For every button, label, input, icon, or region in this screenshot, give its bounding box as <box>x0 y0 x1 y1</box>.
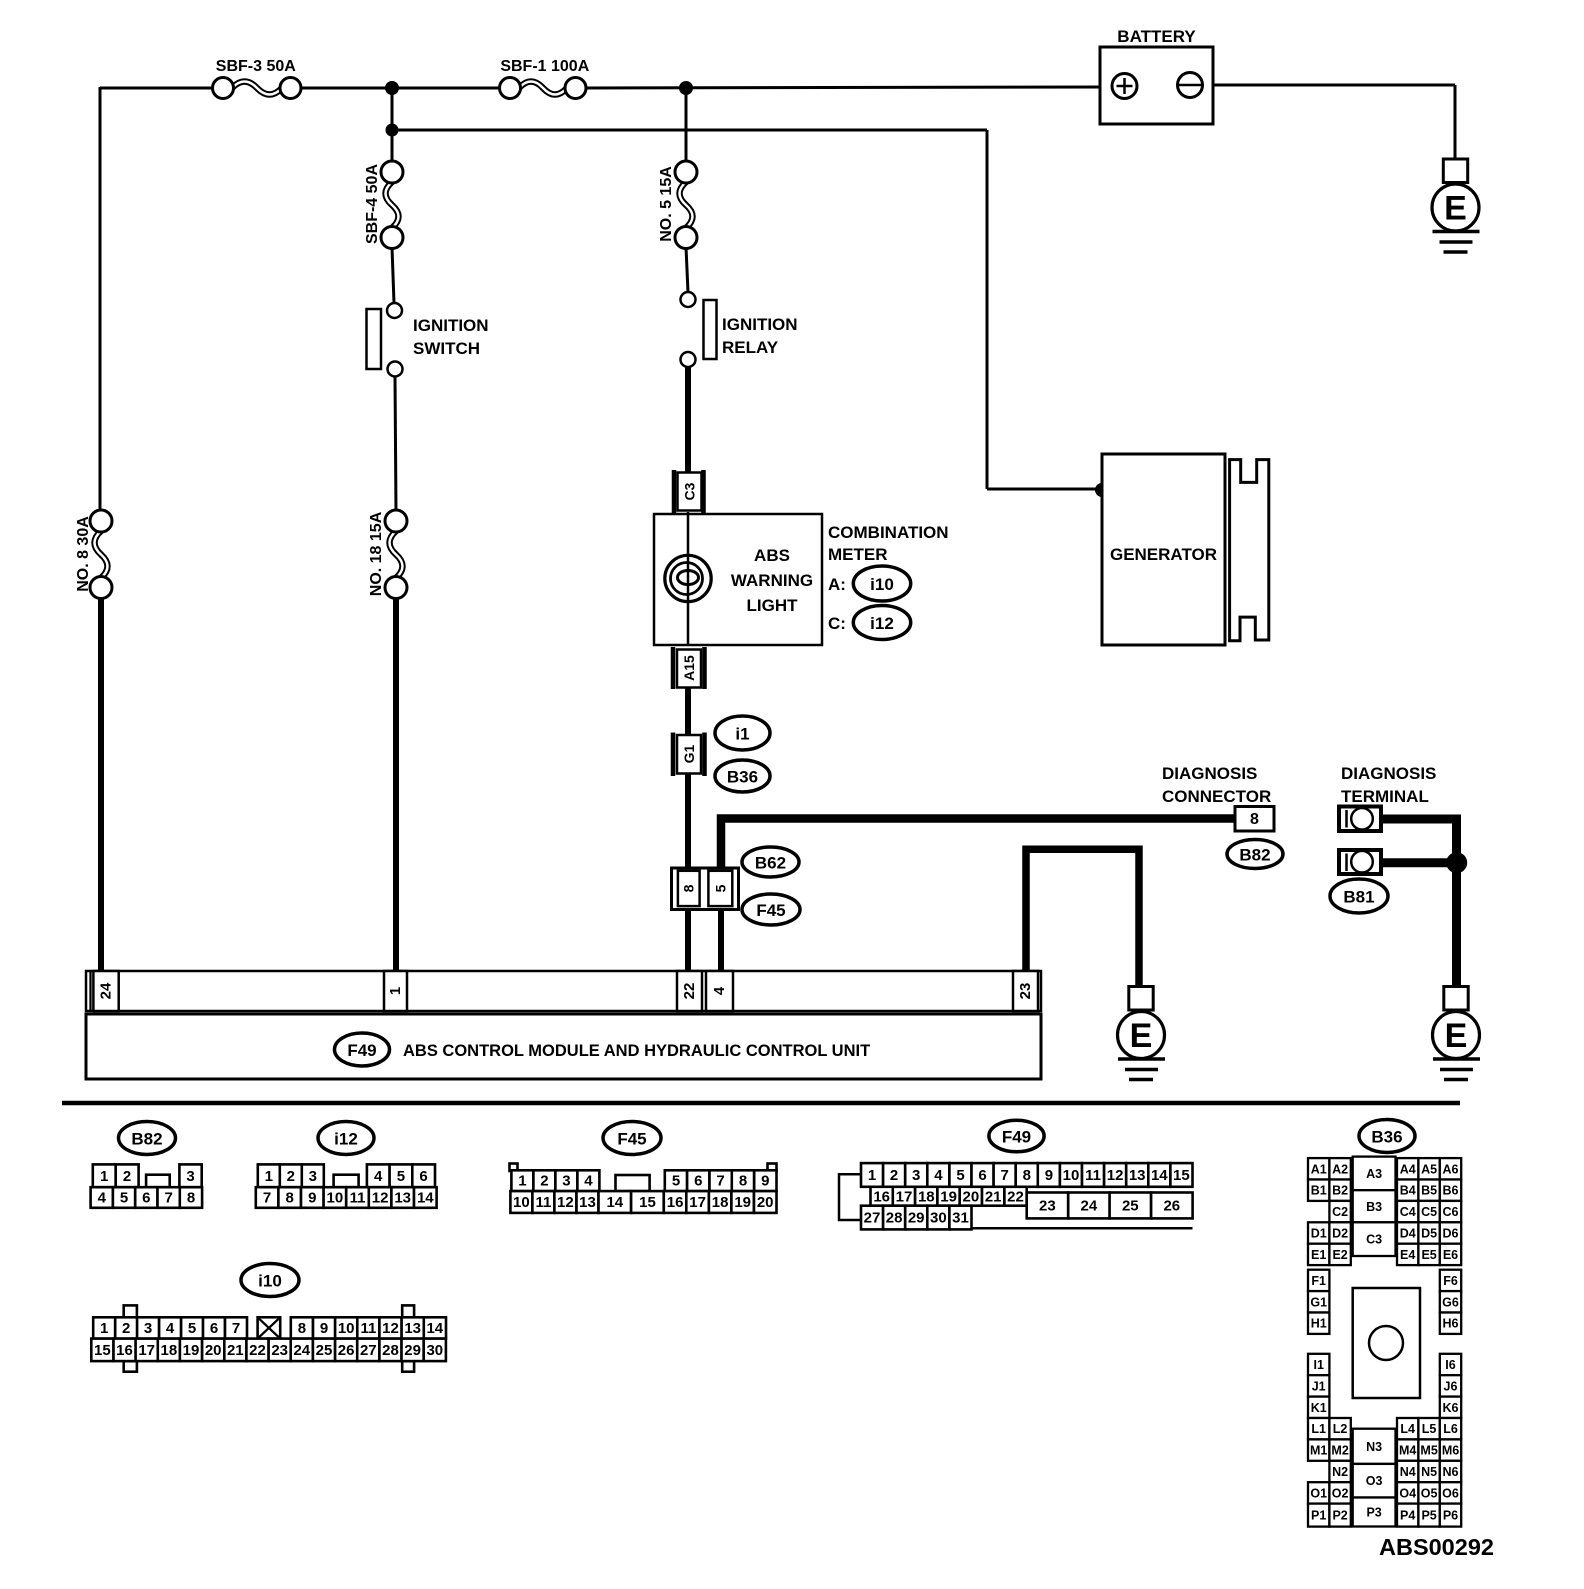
pin 23 <box>1013 971 1038 1011</box>
svg-text:26: 26 <box>1163 1198 1180 1215</box>
svg-text:LIGHT: LIGHT <box>747 596 799 615</box>
svg-text:12: 12 <box>1107 1167 1124 1184</box>
svg-text:1: 1 <box>100 1320 108 1337</box>
svg-text:22: 22 <box>1007 1188 1024 1205</box>
lamp ABS warning light <box>665 555 711 601</box>
connector detail B82 label <box>119 1122 176 1155</box>
svg-text:4: 4 <box>934 1167 943 1184</box>
svg-text:10: 10 <box>338 1320 355 1337</box>
svg-text:4: 4 <box>584 1173 593 1190</box>
svg-text:6: 6 <box>978 1167 986 1184</box>
wire ignition switch column <box>392 88 396 973</box>
connector detail F49 label <box>989 1120 1044 1152</box>
svg-text:ABS: ABS <box>754 546 790 565</box>
pin 1 <box>384 971 407 1011</box>
svg-text:8: 8 <box>1023 1167 1031 1184</box>
node junction SBF-4 top <box>385 81 399 95</box>
svg-text:METER: METER <box>828 545 888 564</box>
fuse SBF-4 50A <box>364 161 403 249</box>
svg-text:J1: J1 <box>1312 1379 1326 1393</box>
wire second bus y=130 to generator <box>392 130 1102 489</box>
svg-text:29: 29 <box>908 1210 925 1227</box>
svg-text:17: 17 <box>138 1342 155 1359</box>
svg-text:15: 15 <box>94 1342 111 1359</box>
svg-text:8: 8 <box>681 884 697 892</box>
svg-text:B6: B6 <box>1443 1184 1459 1198</box>
svg-text:G1: G1 <box>1310 1295 1327 1309</box>
svg-text:ABS CONTROL MODULE AND HYDRAUL: ABS CONTROL MODULE AND HYDRAULIC CONTROL… <box>403 1042 870 1060</box>
svg-text:28: 28 <box>382 1342 399 1359</box>
svg-text:D4: D4 <box>1400 1227 1416 1241</box>
wire pin 23 to ground <box>1026 849 1139 988</box>
svg-text:3: 3 <box>144 1320 152 1337</box>
svg-text:16: 16 <box>667 1194 684 1211</box>
svg-text:13: 13 <box>579 1194 596 1211</box>
svg-text:19: 19 <box>734 1194 751 1211</box>
svg-text:B82: B82 <box>131 1130 162 1149</box>
node junction NO.5 top <box>679 81 693 95</box>
svg-text:SWITCH: SWITCH <box>413 339 480 358</box>
svg-text:30: 30 <box>930 1210 947 1227</box>
svg-text:31: 31 <box>952 1210 969 1227</box>
svg-text:E5: E5 <box>1421 1248 1436 1262</box>
svg-text:9: 9 <box>320 1320 328 1337</box>
svg-text:L6: L6 <box>1443 1422 1458 1436</box>
svg-text:7: 7 <box>1001 1167 1009 1184</box>
svg-text:C3: C3 <box>1366 1233 1382 1247</box>
svg-text:IGNITION: IGNITION <box>413 316 489 335</box>
svg-text:A4: A4 <box>1400 1162 1416 1176</box>
svg-text:17: 17 <box>896 1188 913 1205</box>
svg-text:NO. 5 15A: NO. 5 15A <box>658 166 675 242</box>
svg-text:G1: G1 <box>681 744 697 763</box>
svg-text:G6: G6 <box>1442 1295 1459 1309</box>
svg-text:B36: B36 <box>727 768 758 787</box>
ABS control module connector row <box>86 971 1041 1011</box>
svg-text:20: 20 <box>205 1342 222 1359</box>
pin 24 <box>93 971 118 1011</box>
connector ref B81 <box>1330 879 1388 913</box>
connector C3 <box>674 470 704 513</box>
svg-text:SBF-3 50A: SBF-3 50A <box>216 58 296 75</box>
svg-text:21: 21 <box>985 1188 1002 1205</box>
svg-text:14: 14 <box>1151 1167 1168 1184</box>
svg-text:L5: L5 <box>1422 1422 1437 1436</box>
svg-text:20: 20 <box>757 1194 774 1211</box>
svg-text:D1: D1 <box>1311 1227 1327 1241</box>
svg-text:C6: C6 <box>1443 1205 1459 1219</box>
connector detail i10 pins <box>91 1305 446 1371</box>
svg-text:A6: A6 <box>1443 1162 1459 1176</box>
svg-text:4: 4 <box>711 986 728 995</box>
svg-text:8: 8 <box>298 1320 306 1337</box>
svg-text:13: 13 <box>404 1320 421 1337</box>
wire diagnosis terminal 1 <box>1381 819 1457 863</box>
svg-text:N2: N2 <box>1332 1465 1348 1479</box>
svg-text:B1: B1 <box>1311 1184 1327 1198</box>
svg-text:20: 20 <box>963 1188 980 1205</box>
svg-text:K6: K6 <box>1443 1401 1459 1415</box>
svg-text:1: 1 <box>518 1173 526 1190</box>
svg-text:E2: E2 <box>1332 1248 1347 1262</box>
svg-text:NO. 18 15A: NO. 18 15A <box>368 511 385 596</box>
svg-text:8: 8 <box>739 1173 747 1190</box>
svg-text:14: 14 <box>426 1320 443 1337</box>
svg-text:8: 8 <box>286 1190 294 1207</box>
svg-text:E: E <box>1445 1017 1468 1055</box>
svg-text:12: 12 <box>557 1194 574 1211</box>
fuse NO. 18 15A <box>368 510 407 599</box>
svg-text:18: 18 <box>161 1342 178 1359</box>
connector detail B36 pins <box>1308 1157 1461 1527</box>
connector ref i1 <box>715 716 770 750</box>
svg-text:1: 1 <box>387 987 404 995</box>
svg-text:E: E <box>1444 190 1467 228</box>
wire ignition relay column <box>686 88 688 973</box>
connector detail F45 pins <box>510 1164 777 1213</box>
svg-text:24: 24 <box>1081 1198 1098 1215</box>
svg-text:C3: C3 <box>682 482 698 500</box>
svg-text:i12: i12 <box>870 614 894 633</box>
svg-text:30: 30 <box>426 1342 443 1359</box>
svg-text:5: 5 <box>956 1167 964 1184</box>
ground E top right <box>1432 159 1480 252</box>
svg-text:16: 16 <box>116 1342 133 1359</box>
connector detail i10 label <box>241 1264 299 1297</box>
svg-text:P3: P3 <box>1366 1506 1381 1520</box>
svg-text:J6: J6 <box>1444 1379 1458 1393</box>
svg-text:21: 21 <box>227 1342 244 1359</box>
svg-text:F49: F49 <box>1002 1128 1031 1147</box>
wire bus to diagnosis connector <box>721 819 1235 871</box>
svg-text:9: 9 <box>308 1190 316 1207</box>
ignition relay <box>681 292 798 367</box>
svg-text:M1: M1 <box>1310 1444 1327 1458</box>
svg-text:GENERATOR: GENERATOR <box>1110 545 1217 564</box>
svg-text:1: 1 <box>265 1168 273 1185</box>
svg-text:A3: A3 <box>1366 1167 1382 1181</box>
svg-text:10: 10 <box>327 1190 344 1207</box>
svg-text:N3: N3 <box>1366 1440 1382 1454</box>
svg-text:12: 12 <box>382 1320 399 1337</box>
svg-text:M4: M4 <box>1399 1444 1416 1458</box>
pin 22 <box>677 971 702 1011</box>
svg-text:7: 7 <box>263 1190 271 1207</box>
svg-text:3: 3 <box>912 1167 920 1184</box>
svg-text:23: 23 <box>1039 1198 1056 1215</box>
svg-text:17: 17 <box>689 1194 706 1211</box>
svg-text:23: 23 <box>271 1342 288 1359</box>
wire left column NO.8 <box>100 87 101 973</box>
ground E bottom middle <box>1118 987 1166 1080</box>
label C: <box>828 614 846 633</box>
node junction diagnosis terminal <box>1446 852 1467 873</box>
svg-text:24: 24 <box>98 982 115 999</box>
svg-text:i10: i10 <box>258 1272 282 1291</box>
svg-text:CONNECTOR: CONNECTOR <box>1162 787 1271 806</box>
svg-text:8: 8 <box>1250 811 1259 828</box>
svg-text:F45: F45 <box>756 901 785 920</box>
combination meter box <box>654 514 822 645</box>
svg-text:23: 23 <box>1017 983 1034 1000</box>
svg-text:WARNING: WARNING <box>731 571 813 590</box>
svg-text:C2: C2 <box>1332 1205 1348 1219</box>
svg-text:3: 3 <box>186 1168 194 1185</box>
battery <box>1100 27 1213 124</box>
svg-text:i10: i10 <box>870 575 894 594</box>
svg-text:B5: B5 <box>1421 1184 1437 1198</box>
connector ref F49 <box>335 1033 390 1066</box>
svg-text:DIAGNOSIS: DIAGNOSIS <box>1341 764 1436 783</box>
svg-text:K1: K1 <box>1311 1401 1327 1415</box>
svg-text:22: 22 <box>249 1342 266 1359</box>
svg-text:M2: M2 <box>1331 1444 1348 1458</box>
svg-text:26: 26 <box>338 1342 355 1359</box>
svg-text:2: 2 <box>123 1168 131 1185</box>
svg-text:COMBINATION: COMBINATION <box>828 523 949 542</box>
generator <box>1102 454 1225 645</box>
svg-text:5: 5 <box>188 1320 196 1337</box>
connector A15 <box>673 647 705 689</box>
svg-text:4: 4 <box>166 1320 175 1337</box>
svg-text:14: 14 <box>417 1190 434 1207</box>
svg-text:i12: i12 <box>334 1130 358 1149</box>
svg-text:M6: M6 <box>1442 1444 1459 1458</box>
svg-text:2: 2 <box>122 1320 130 1337</box>
svg-text:O4: O4 <box>1399 1486 1416 1500</box>
svg-text:C4: C4 <box>1400 1205 1416 1219</box>
svg-text:B62: B62 <box>755 854 786 873</box>
svg-text:O1: O1 <box>1310 1486 1327 1500</box>
connector detail F45 label <box>603 1122 661 1155</box>
svg-text:D6: D6 <box>1443 1227 1459 1241</box>
svg-text:A1: A1 <box>1311 1162 1327 1176</box>
svg-text:DIAGNOSIS: DIAGNOSIS <box>1162 764 1257 783</box>
svg-text:6: 6 <box>210 1320 218 1337</box>
svg-text:F1: F1 <box>1311 1274 1326 1288</box>
svg-text:1: 1 <box>100 1168 108 1185</box>
svg-text:24: 24 <box>293 1342 310 1359</box>
svg-text:E: E <box>1130 1017 1153 1055</box>
node junction second bus <box>386 124 399 137</box>
svg-text:C:: C: <box>828 614 846 633</box>
connector ref B62 <box>742 847 799 877</box>
label DIAGNOSIS CONNECTOR <box>1162 764 1271 806</box>
wire battery to ground E <box>1203 85 1455 160</box>
connector ref i10 <box>853 566 910 601</box>
connector G1 <box>673 733 705 777</box>
wire connector 5 to pin 4 <box>718 908 724 973</box>
svg-text:O3: O3 <box>1366 1474 1383 1488</box>
svg-text:A5: A5 <box>1421 1162 1437 1176</box>
svg-text:18: 18 <box>712 1194 729 1211</box>
wire main battery bus y=87 <box>100 87 1113 88</box>
svg-text:E6: E6 <box>1443 1248 1458 1262</box>
svg-text:5: 5 <box>397 1168 405 1185</box>
svg-text:15: 15 <box>639 1194 656 1211</box>
svg-text:11: 11 <box>350 1190 366 1207</box>
svg-text:D2: D2 <box>1332 1227 1348 1241</box>
svg-text:A2: A2 <box>1332 1162 1348 1176</box>
svg-text:6: 6 <box>419 1168 427 1185</box>
svg-text:SBF-1 100A: SBF-1 100A <box>500 58 589 75</box>
connector detail i12 label <box>318 1122 374 1155</box>
connector ref i12 <box>853 606 910 640</box>
svg-text:19: 19 <box>940 1188 957 1205</box>
svg-text:9: 9 <box>761 1173 769 1190</box>
svg-text:IGNITION: IGNITION <box>722 315 798 334</box>
svg-text:F45: F45 <box>617 1130 646 1149</box>
connector detail F49 pins <box>839 1163 1193 1229</box>
svg-text:11: 11 <box>1085 1167 1101 1184</box>
svg-text:B81: B81 <box>1343 888 1374 907</box>
svg-text:E1: E1 <box>1311 1248 1326 1262</box>
svg-text:L4: L4 <box>1400 1422 1415 1436</box>
svg-text:F6: F6 <box>1443 1274 1458 1288</box>
svg-text:16: 16 <box>873 1188 890 1205</box>
svg-text:F49: F49 <box>347 1041 376 1060</box>
pin 4 <box>706 971 733 1011</box>
svg-text:SBF-4 50A: SBF-4 50A <box>364 164 381 244</box>
svg-text:6: 6 <box>142 1190 150 1207</box>
svg-text:13: 13 <box>1129 1167 1146 1184</box>
svg-text:27: 27 <box>864 1210 881 1227</box>
svg-text:ABS00292: ABS00292 <box>1379 1534 1494 1560</box>
label ABS CONTROL MODULE AND HYDRAULIC CONTROL UNIT <box>403 1042 870 1060</box>
svg-text:C5: C5 <box>1421 1205 1437 1219</box>
svg-text:E4: E4 <box>1400 1248 1415 1262</box>
svg-text:28: 28 <box>886 1210 903 1227</box>
diagnosis terminal 2 <box>1339 850 1381 874</box>
svg-text:i1: i1 <box>735 725 749 744</box>
svg-text:14: 14 <box>606 1194 623 1211</box>
svg-text:O5: O5 <box>1421 1486 1438 1500</box>
svg-text:P4: P4 <box>1400 1509 1415 1523</box>
svg-text:3: 3 <box>562 1173 570 1190</box>
label A: <box>828 575 846 594</box>
connector detail i12 pins <box>256 1164 437 1207</box>
svg-text:7: 7 <box>716 1173 724 1190</box>
svg-text:7: 7 <box>232 1320 240 1337</box>
svg-text:P1: P1 <box>1311 1509 1326 1523</box>
svg-text:2: 2 <box>540 1173 548 1190</box>
svg-text:25: 25 <box>1122 1198 1139 1215</box>
connector ref F45 <box>742 894 800 925</box>
svg-text:B4: B4 <box>1400 1184 1416 1198</box>
label ABS WARNING LIGHT <box>731 546 813 615</box>
svg-text:19: 19 <box>183 1342 200 1359</box>
svg-text:27: 27 <box>360 1342 377 1359</box>
svg-text:5: 5 <box>712 884 728 892</box>
fuse NO. 8 30A <box>75 510 112 599</box>
svg-text:13: 13 <box>394 1190 411 1207</box>
svg-text:18: 18 <box>918 1188 935 1205</box>
svg-text:N5: N5 <box>1421 1465 1437 1479</box>
svg-text:11: 11 <box>360 1320 376 1337</box>
svg-text:15: 15 <box>1173 1167 1190 1184</box>
ignition switch <box>367 303 489 377</box>
diagnosis terminal 1 <box>1339 807 1381 832</box>
svg-text:RELAY: RELAY <box>722 338 779 357</box>
svg-text:O6: O6 <box>1442 1486 1459 1500</box>
svg-text:L1: L1 <box>1311 1422 1326 1436</box>
svg-text:10: 10 <box>1063 1167 1080 1184</box>
label ABS00292 <box>1379 1534 1494 1560</box>
svg-text:O2: O2 <box>1332 1486 1349 1500</box>
svg-text:4: 4 <box>98 1190 107 1207</box>
svg-text:N4: N4 <box>1400 1465 1416 1479</box>
svg-text:A:: A: <box>828 575 846 594</box>
svg-text:12: 12 <box>372 1190 389 1207</box>
svg-text:11: 11 <box>535 1194 551 1211</box>
svg-text:25: 25 <box>316 1342 333 1359</box>
separator line <box>62 1101 1460 1106</box>
connector F45 pins 8 and 5 <box>672 868 739 910</box>
svg-text:5: 5 <box>672 1173 680 1190</box>
svg-text:L2: L2 <box>1333 1422 1348 1436</box>
svg-text:P5: P5 <box>1421 1509 1436 1523</box>
svg-text:P2: P2 <box>1332 1509 1347 1523</box>
svg-text:8: 8 <box>187 1190 195 1207</box>
wire diagnosis terminal 2 to ground <box>1381 863 1457 988</box>
label DIAGNOSIS TERMINAL <box>1341 764 1436 806</box>
svg-text:D5: D5 <box>1421 1227 1437 1241</box>
svg-text:29: 29 <box>404 1342 421 1359</box>
svg-text:2: 2 <box>890 1167 898 1184</box>
fuse NO. 5 15A <box>658 161 697 249</box>
svg-text:3: 3 <box>309 1168 317 1185</box>
svg-text:B3: B3 <box>1366 1200 1382 1214</box>
svg-text:4: 4 <box>374 1168 383 1185</box>
svg-text:6: 6 <box>694 1173 702 1190</box>
connector ref B36 <box>715 760 770 792</box>
label COMBINATION METER <box>828 523 949 564</box>
svg-text:NO. 8 30A: NO. 8 30A <box>75 516 92 592</box>
svg-text:H1: H1 <box>1311 1317 1327 1331</box>
svg-text:2: 2 <box>287 1168 295 1185</box>
generator connector bracket <box>1230 460 1269 641</box>
diagnosis connector pin 8 <box>1235 807 1274 832</box>
svg-text:9: 9 <box>1045 1167 1053 1184</box>
svg-text:B36: B36 <box>1371 1128 1402 1147</box>
svg-text:B2: B2 <box>1332 1184 1348 1198</box>
connector detail B36 label <box>1359 1120 1415 1153</box>
svg-text:I6: I6 <box>1445 1358 1455 1372</box>
svg-text:A15: A15 <box>681 655 697 681</box>
svg-text:7: 7 <box>165 1190 173 1207</box>
svg-text:N6: N6 <box>1443 1465 1459 1479</box>
svg-text:H6: H6 <box>1443 1317 1459 1331</box>
svg-text:TERMINAL: TERMINAL <box>1341 787 1429 806</box>
ground E bottom right <box>1433 987 1481 1080</box>
fuse SBF-1 100A <box>500 58 590 99</box>
svg-text:M5: M5 <box>1420 1444 1437 1458</box>
svg-text:10: 10 <box>513 1194 530 1211</box>
connector ref B82 <box>1227 840 1283 869</box>
svg-text:1: 1 <box>868 1167 876 1184</box>
svg-text:22: 22 <box>681 983 698 1000</box>
connector detail B82 pins <box>91 1164 203 1207</box>
ABS control module body <box>86 1014 1041 1079</box>
svg-text:I1: I1 <box>1313 1358 1323 1372</box>
svg-text:P6: P6 <box>1443 1509 1458 1523</box>
svg-text:B82: B82 <box>1239 846 1270 865</box>
svg-text:5: 5 <box>120 1190 128 1207</box>
node junction generator <box>1095 483 1109 497</box>
fuse SBF-3 50A <box>213 58 302 99</box>
svg-text:BATTERY: BATTERY <box>1117 27 1196 46</box>
